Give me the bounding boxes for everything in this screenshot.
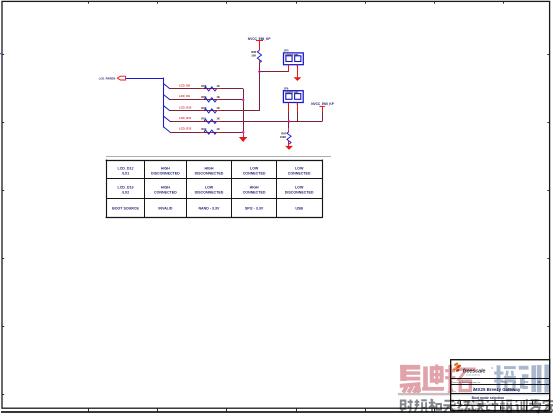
svg-text:Boot mode selection: Boot mode selection — [472, 396, 504, 400]
svg-text:INVALID: INVALID — [158, 207, 173, 211]
svg-text:1K: 1K — [216, 127, 219, 131]
svg-text:LOW: LOW — [205, 186, 214, 190]
svg-text:BOOT SOURCE: BOOT SOURCE — [112, 207, 139, 211]
svg-text:HIGH: HIGH — [204, 167, 213, 171]
svg-text:LCD_D8: LCD_D8 — [179, 83, 190, 87]
svg-text:10K: 10K — [251, 53, 256, 57]
svg-text:R89: R89 — [201, 95, 206, 99]
svg-text:CONNECTED: CONNECTED — [243, 191, 266, 195]
svg-text:/LX1: /LX1 — [122, 171, 130, 175]
svg-text:R91: R91 — [201, 117, 206, 121]
svg-text:CONNECTED: CONNECTED — [243, 171, 266, 175]
svg-text:LCD_PWREN: LCD_PWREN — [99, 76, 116, 80]
svg-text:R90: R90 — [201, 106, 206, 110]
svg-text:semiconductor: semiconductor — [466, 373, 480, 376]
svg-text:LCD_D11: LCD_D11 — [179, 116, 192, 120]
svg-text:1K: 1K — [216, 106, 219, 110]
svg-text:LCD_D12: LCD_D12 — [179, 127, 192, 131]
svg-text:R88: R88 — [201, 84, 206, 88]
svg-text:HIGH: HIGH — [161, 186, 170, 190]
svg-text:USB: USB — [295, 207, 303, 211]
svg-text:LCD_D9: LCD_D9 — [179, 94, 190, 98]
svg-text:NAND - 3.3V: NAND - 3.3V — [198, 207, 220, 211]
svg-text:1K: 1K — [216, 95, 219, 99]
svg-text:/LX2: /LX2 — [122, 191, 130, 195]
svg-text:CONNECTED: CONNECTED — [154, 191, 177, 195]
svg-text:DISCONNECTED: DISCONNECTED — [151, 171, 180, 175]
svg-text:DISCONNECTED: DISCONNECTED — [195, 171, 224, 175]
svg-text:R92: R92 — [201, 127, 206, 131]
svg-text:SPI2 - 3.3V: SPI2 - 3.3V — [245, 207, 264, 211]
svg-text:LOW: LOW — [250, 167, 259, 171]
svg-text:LOW: LOW — [295, 186, 304, 190]
svg-text:R87: R87 — [281, 131, 286, 135]
svg-text:CONNECTED: CONNECTED — [288, 171, 311, 175]
svg-text:LCD_D12: LCD_D12 — [118, 167, 134, 171]
svg-text:™: ™ — [491, 366, 494, 370]
svg-text:NVCC_EMI_KP: NVCC_EMI_KP — [311, 102, 335, 106]
svg-text:JP6: JP6 — [284, 87, 289, 91]
svg-text:DISCONNECTED: DISCONNECTED — [195, 191, 224, 195]
svg-text:HIGH: HIGH — [161, 167, 170, 171]
svg-text:100K: 100K — [280, 135, 286, 139]
svg-text:LCD_D10: LCD_D10 — [179, 105, 192, 109]
svg-text:R86: R86 — [251, 50, 256, 54]
svg-text:DISCONNECTED: DISCONNECTED — [285, 191, 314, 195]
svg-text:1K: 1K — [216, 84, 219, 88]
svg-text:LCD_D13: LCD_D13 — [118, 186, 134, 190]
svg-text:HIGH: HIGH — [250, 186, 259, 190]
svg-text:LOW: LOW — [295, 167, 304, 171]
svg-text:1K: 1K — [216, 117, 219, 121]
svg-text:JP5: JP5 — [284, 49, 289, 53]
